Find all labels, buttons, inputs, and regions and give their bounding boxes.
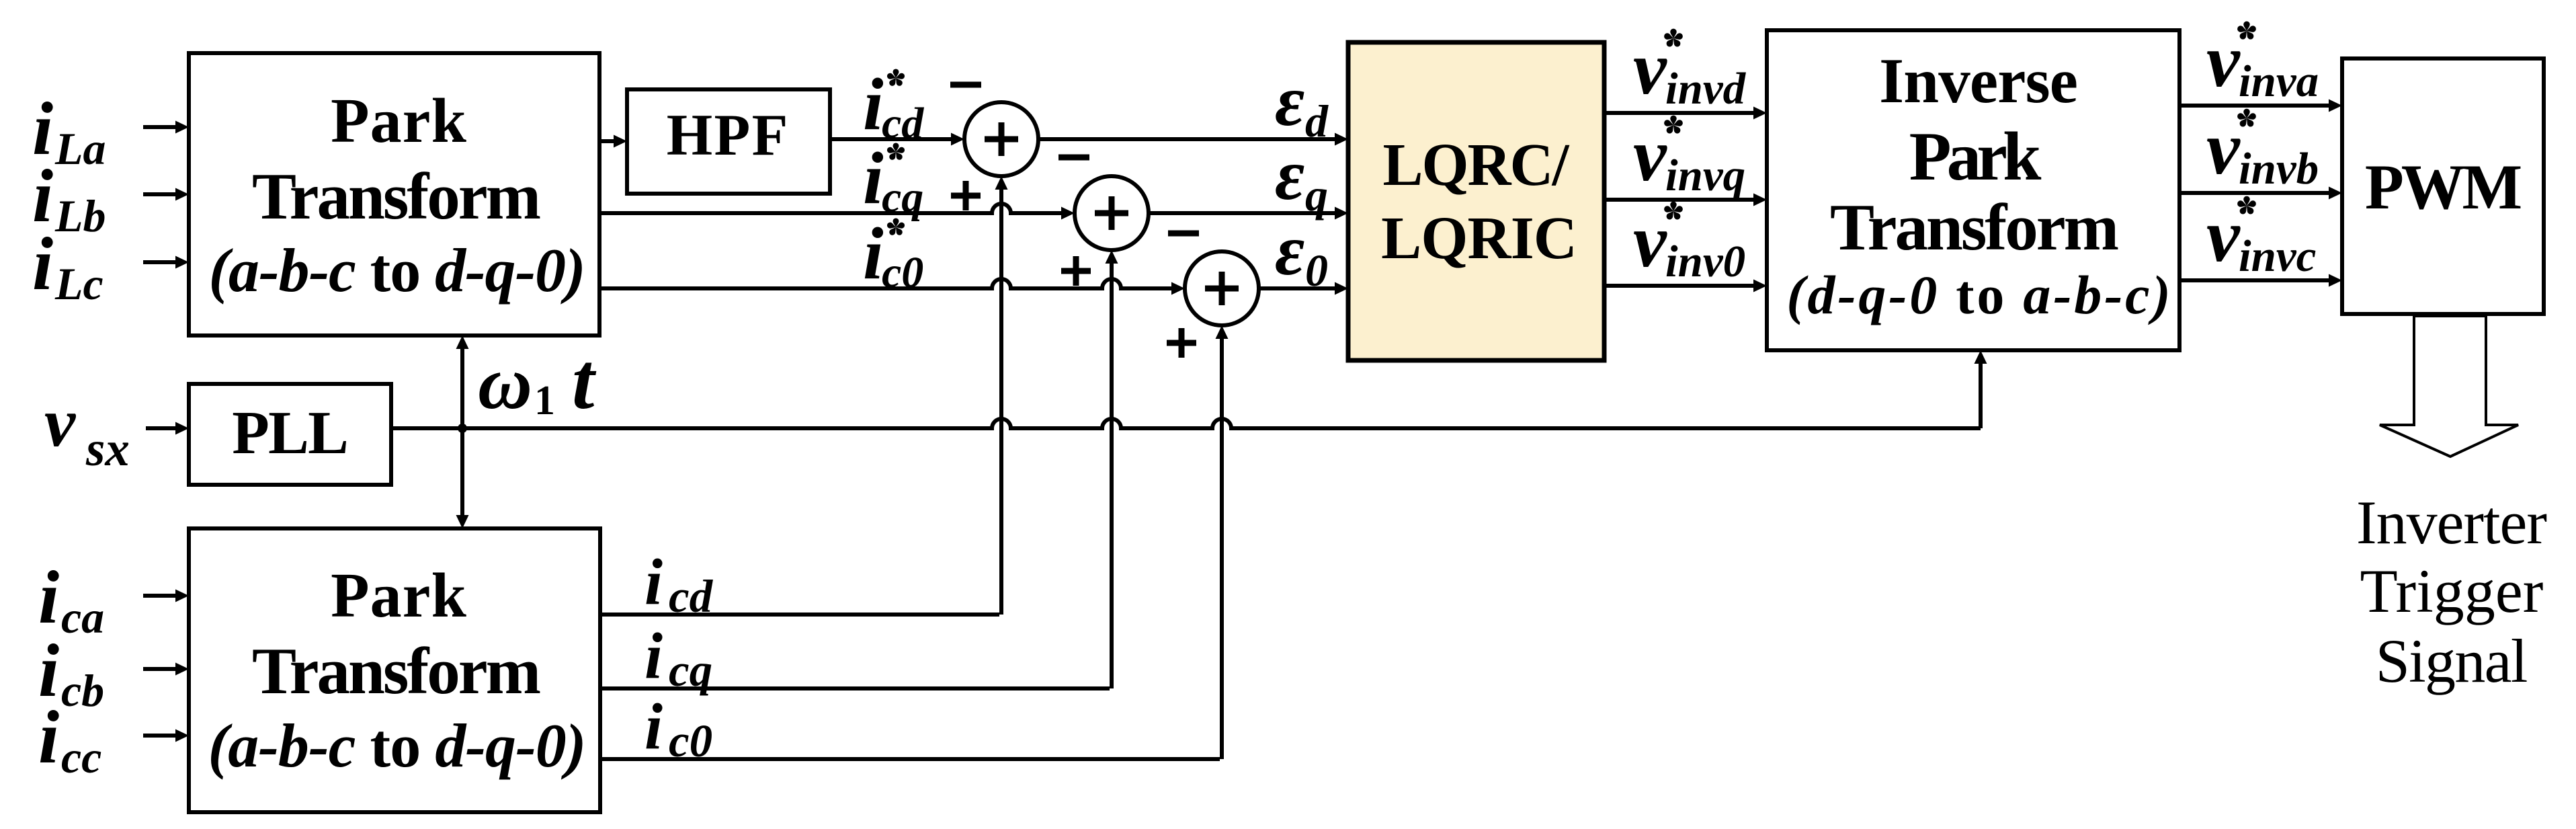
svg-text:c0: c0 (669, 715, 712, 766)
wire: input ica arrow into bottom Park Transform (143, 590, 189, 602)
wire: feedback ic0 up into S3 (600, 325, 1229, 759)
junction: omega1*t node at x=688 (458, 424, 467, 433)
svg-text:i: i (863, 137, 884, 219)
label: i*c0 reference (863, 212, 923, 297)
svg-text:ca: ca (61, 592, 104, 643)
svg-text:i: i (645, 690, 663, 762)
svg-text:ε: ε (1275, 210, 1304, 290)
svg-text:i: i (32, 223, 53, 306)
svg-text:Park: Park (331, 86, 467, 156)
svg-text:invc: invc (2239, 231, 2316, 281)
svg-text:i: i (645, 620, 663, 692)
block: Inverse Park Transform (d-q-0 to a-b-c) (1767, 30, 2179, 350)
svg-text:Park: Park (1909, 118, 2042, 195)
svg-text:inv0: inv0 (1665, 237, 1745, 286)
wire: input iLc arrow into top Park Transform (143, 256, 189, 269)
label: omega1 t (478, 336, 597, 426)
svg-text:v: v (44, 384, 77, 461)
summing junction S1 (964, 102, 1038, 176)
label: v*invc (2206, 194, 2316, 281)
wire: omega1*t double-arrow between the two Park Transform blocks (456, 335, 469, 528)
svg-text:Inverter: Inverter (2356, 488, 2546, 557)
svg-text:q: q (1305, 169, 1328, 221)
label: v*invd (1633, 27, 1747, 114)
wire: Park Transform output i*cq to summing junction S2 (hop at x=1490) (599, 204, 1075, 220)
wire: Inverse Park output v*invb to PWM (2179, 187, 2342, 200)
svg-text:invq: invq (1665, 151, 1745, 200)
svg-text:0: 0 (1305, 245, 1328, 296)
svg-text:ε: ε (1275, 135, 1304, 215)
wire: feedback icd up into S1 (600, 176, 1008, 615)
svg-text:Transform: Transform (252, 635, 540, 708)
summing junction S2 (1075, 176, 1149, 250)
label: iLb (32, 155, 106, 241)
sign: minus at S3 top input (1168, 231, 1199, 237)
svg-text:i: i (38, 696, 59, 779)
svg-text:Lc: Lc (54, 258, 103, 309)
wire: input icb arrow into bottom Park Transform (143, 663, 189, 676)
svg-text:v: v (1633, 27, 1667, 110)
svg-text:cd: cd (669, 571, 714, 622)
block: Park Transform (top, a-b-c to d-q-0) (189, 53, 599, 335)
svg-text:Signal: Signal (2376, 627, 2527, 695)
svg-text:cb: cb (61, 665, 104, 716)
svg-text:i: i (863, 63, 884, 145)
wire: S2 output epsilon_q to LQRC (1149, 207, 1348, 220)
block: LQRC/LQRIC controller (1348, 42, 1604, 360)
svg-text:Transform: Transform (1830, 191, 2118, 264)
wire: input icc arrow into bottom Park Transform (143, 729, 189, 742)
svg-text:d: d (1305, 95, 1329, 147)
svg-text:cq: cq (882, 173, 923, 222)
svg-text:invb: invb (2239, 144, 2319, 194)
svg-text:PLL: PLL (232, 399, 347, 467)
wire: Park Transform to HPF (599, 135, 627, 148)
svg-text:c0: c0 (882, 248, 923, 297)
label: iLa (32, 87, 106, 174)
svg-text:v: v (2206, 107, 2241, 190)
label: v*invq (1633, 114, 1745, 200)
label: icc (38, 696, 101, 783)
block: Park Transform (bottom, a-b-c to d-q-0) (189, 528, 600, 812)
svg-text:sx: sx (85, 422, 130, 476)
wire: LQRC output v*invd to Inverse Park Transform (1604, 107, 1767, 120)
sign: plus at S2 bottom input (1061, 256, 1091, 286)
wire: LQRC output v*invq to Inverse Park Transform (1604, 194, 1767, 206)
label: iLc (32, 223, 103, 309)
svg-text:i: i (645, 546, 663, 618)
svg-text:Trigger: Trigger (2360, 557, 2544, 625)
svg-text:inva: inva (2239, 56, 2319, 106)
svg-text:(a-b-c to d-q-0): (a-b-c to d-q-0) (208, 236, 585, 305)
label: Inverter Trigger Signal (2356, 488, 2546, 695)
svg-text:PWM: PWM (2365, 151, 2521, 223)
label: i*cq reference (863, 137, 923, 222)
sign: plus at S1 bottom input (951, 181, 981, 210)
wire: LQRC output v*inv0 to Inverse Park Transform (1604, 280, 1767, 292)
wire: input iLa arrow into top Park Transform (143, 121, 189, 134)
label: feedback ic0 (645, 690, 712, 766)
wire: feedback icq up into S2 (600, 250, 1118, 688)
wire: Inverse Park output v*invc to PWM (2179, 274, 2342, 287)
svg-text:LQRIC: LQRIC (1381, 205, 1577, 272)
sign: plus at S3 bottom input (1167, 328, 1196, 358)
label: ica (38, 556, 104, 643)
label: v*invb (2206, 107, 2319, 194)
svg-text:(d-q-0 to a-b-c): (d-q-0 to a-b-c) (1786, 264, 2173, 325)
svg-text:v: v (1633, 114, 1667, 197)
wire: S3 output epsilon_0 to LQRC (1259, 282, 1348, 295)
wire: omega1*t rising into Inverse Park bottom (1975, 350, 1987, 428)
label: epsilon q (1275, 135, 1328, 221)
svg-text:Lb: Lb (54, 190, 106, 241)
sign: minus at S2 top input (1058, 155, 1089, 161)
wire: Park Transform output i*c0 to summing junction S3 (hops at x=1490,1654) (599, 279, 1185, 295)
label: feedback icq (645, 620, 712, 696)
svg-text:v: v (2206, 19, 2241, 103)
block: PWM (2342, 58, 2544, 314)
label: epsilon 0 (1275, 210, 1328, 296)
label: v*inv0 (1633, 200, 1745, 286)
svg-text:1: 1 (534, 378, 555, 424)
svg-text:t: t (572, 336, 597, 426)
svg-text:Park: Park (331, 561, 467, 631)
label: feedback icd (645, 546, 714, 622)
block: PLL (189, 384, 391, 485)
svg-text:v: v (1633, 200, 1667, 283)
wire: S1 output epsilon_d to LQRC (1038, 133, 1348, 146)
label: i*cd reference (863, 63, 924, 148)
wire: input iLb arrow into top Park Transform (143, 188, 189, 201)
wire: PLL output omega1*t long horizontal run to Inverse Park (hops at feedback verticals) (391, 419, 1981, 428)
svg-text:ω: ω (478, 342, 532, 425)
svg-text:Transform: Transform (252, 160, 540, 233)
wire: vsx arrow into PLL (146, 422, 189, 435)
label: vsx (44, 384, 130, 476)
symbol: hollow down-arrow from PWM to Inverter Trigger Signal (2380, 316, 2518, 457)
summing junction S3 (1185, 251, 1259, 325)
svg-text:i: i (38, 556, 59, 639)
svg-text:La: La (54, 123, 106, 174)
svg-text:cq: cq (669, 645, 712, 696)
wire: HPF output i*cd to summing junction S1 (830, 133, 964, 146)
block: HPF (627, 89, 830, 194)
svg-text:v: v (2206, 194, 2241, 278)
svg-text:HPF: HPF (667, 103, 790, 168)
label: icb (38, 629, 104, 716)
svg-text:cc: cc (61, 732, 101, 783)
label: epsilon d (1275, 61, 1329, 147)
svg-text:LQRC/: LQRC/ (1383, 132, 1570, 198)
svg-text:cd: cd (882, 99, 924, 148)
sign: minus at S1 top input (950, 82, 981, 88)
svg-text:(a-b-c to d-q-0): (a-b-c to d-q-0) (208, 711, 586, 780)
wire: Inverse Park output v*inva to PWM (2179, 100, 2342, 112)
svg-text:invd: invd (1665, 64, 1747, 114)
label: v*inva (2206, 19, 2319, 106)
svg-text:i: i (863, 212, 884, 294)
svg-text:Inverse: Inverse (1879, 45, 2077, 116)
svg-text:ε: ε (1275, 61, 1304, 141)
